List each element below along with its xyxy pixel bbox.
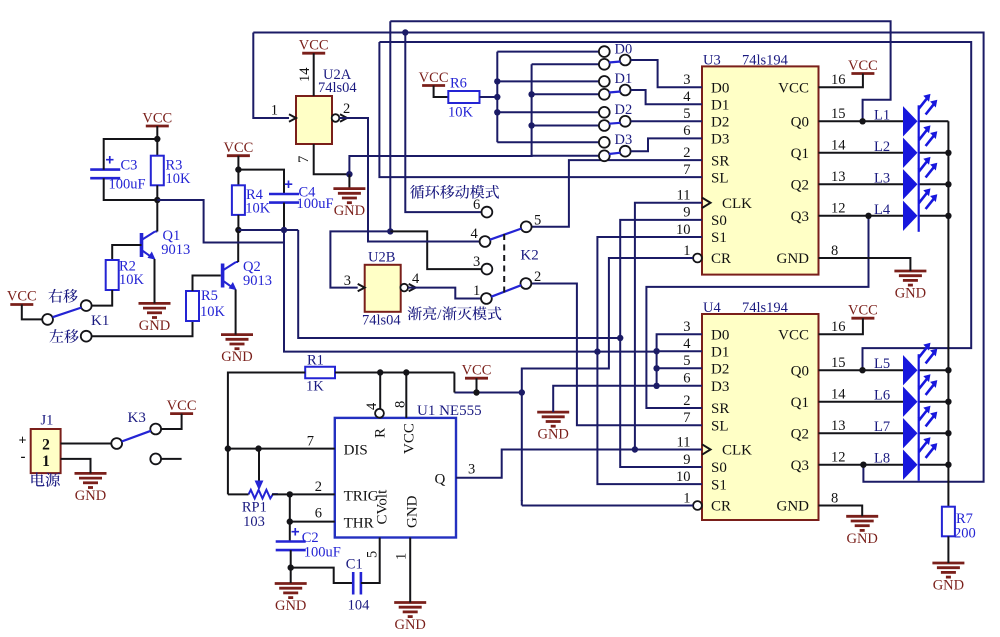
svg-text:CR: CR [711, 499, 731, 515]
node VCC stub junction [473, 389, 479, 395]
node cathode bus junction [945, 399, 951, 405]
svg-text:SL: SL [711, 170, 729, 186]
svg-text:+: + [291, 524, 300, 541]
wire TRIG-THR-C2 vertical [289, 494, 291, 541]
svg-text:GND: GND [777, 499, 810, 515]
wire U4.Q0 feedback top line3 [379, 42, 971, 370]
node C2-C1 junction [288, 564, 294, 570]
svg-text:K1: K1 [91, 313, 109, 329]
svg-text:16: 16 [831, 72, 846, 88]
switch D2 wire from bus B [532, 125, 599, 127]
svg-text:15: 15 [831, 106, 846, 122]
wire stub to ground U2A [348, 174, 350, 188]
svg-text:1: 1 [473, 283, 480, 299]
svg-text:8: 8 [831, 490, 838, 506]
svg-text:Q2: Q2 [791, 178, 809, 194]
svg-text:GND: GND [275, 598, 306, 614]
wire U2A pin14 to VCC [313, 53, 315, 96]
svg-text:104: 104 [348, 598, 371, 614]
node cathode bus junction [945, 181, 951, 187]
U2B pin4 output arrow [409, 284, 416, 291]
svg-text:3: 3 [683, 319, 690, 335]
wire L2 cathode to bus [919, 152, 949, 154]
svg-text:9013: 9013 [243, 273, 272, 289]
svg-text:VCC: VCC [778, 80, 809, 96]
svg-text:R: R [373, 428, 389, 438]
switch D3 blade [609, 153, 621, 154]
capacitor C2 [276, 540, 306, 543]
node D-bus junctions [653, 348, 659, 354]
wire U3/U4 output row L3 [819, 183, 904, 185]
wire U3/U4 output row L5 [819, 369, 904, 371]
svg-text:100uF: 100uF [109, 177, 146, 193]
svg-text:GND: GND [221, 349, 252, 365]
svg-text:1: 1 [394, 553, 410, 560]
svg-text:10K: 10K [166, 171, 192, 187]
wire U4 D-bus [657, 334, 702, 386]
wire U3.S0 to U4.S0 [620, 220, 702, 467]
svg-text:9013: 9013 [161, 242, 190, 258]
switch D2 upper contact [599, 107, 610, 118]
switch K3 blade [122, 431, 151, 442]
svg-text:D0: D0 [615, 41, 633, 57]
svg-text:1: 1 [683, 490, 690, 506]
svg-text:74ls194: 74ls194 [742, 300, 789, 316]
VCC symbol at K1 [10, 303, 33, 306]
wire L5 cathode to bus [919, 369, 949, 371]
switch K2 contact 6 [482, 207, 493, 218]
svg-text:D1: D1 [711, 344, 729, 360]
svg-text:100uF: 100uF [297, 196, 334, 212]
wire DIS pin7 [228, 448, 335, 450]
svg-text:1: 1 [42, 453, 50, 470]
svg-text:L6: L6 [874, 388, 890, 404]
switch D0 lower contact [599, 59, 610, 70]
wire VCC stub R4 [237, 156, 239, 186]
svg-text:1: 1 [271, 103, 278, 119]
svg-text:L3: L3 [874, 170, 890, 186]
wire U2B input [330, 231, 390, 287]
svg-text:11: 11 [677, 434, 691, 450]
svg-text:SR: SR [711, 153, 729, 169]
svg-text:D1: D1 [711, 98, 729, 114]
wire U3.CLK to U4.CLK [635, 203, 702, 450]
resistor R7 [942, 507, 955, 537]
svg-text:L5: L5 [874, 356, 890, 372]
wire C2 bottom [290, 550, 292, 583]
svg-text:3: 3 [473, 254, 480, 270]
connector J1 body [31, 429, 61, 473]
LED L2 [903, 138, 918, 168]
svg-text:D2: D2 [615, 102, 633, 118]
wire collector node bus [238, 229, 298, 231]
U4 CLK edge mark [702, 444, 711, 454]
svg-text:74ls194: 74ls194 [742, 53, 789, 69]
svg-text:VCC: VCC [778, 327, 809, 343]
wire rail corner to VCC node [453, 373, 455, 393]
ground below J1 [75, 472, 107, 475]
wire U3.Q0 feedback loop top line [390, 21, 890, 121]
timer U1 NE555 body [335, 418, 456, 538]
ground at U4 pin8 [846, 515, 878, 518]
wire D2 to U3 pin [631, 120, 702, 122]
svg-text:2: 2 [683, 145, 690, 161]
svg-text:-: - [21, 449, 26, 465]
VCC symbol at K3 [170, 412, 193, 415]
switch K2 contact 4 [480, 236, 491, 247]
svg-text:D3: D3 [615, 132, 633, 148]
wire U3 VCC pin16 [819, 74, 863, 88]
svg-text:VCC: VCC [419, 70, 449, 86]
wire L4 cathode to bus [919, 215, 949, 217]
U2B pin3 input arrow [358, 284, 365, 291]
node R3/C3/Q1 collector [154, 197, 160, 203]
node CLK junction [632, 446, 638, 452]
inverter U2A 74ls04 body [296, 96, 332, 144]
wire VCC stub to R6 [434, 86, 449, 98]
node Q0 feedback junction [859, 118, 865, 124]
svg-text:4: 4 [471, 226, 479, 242]
node cathode bus junction [945, 367, 951, 373]
label right-shift [49, 289, 78, 303]
switch K1 blade [53, 308, 82, 318]
svg-text:Q0: Q0 [791, 115, 809, 131]
svg-text:R6: R6 [450, 76, 467, 92]
svg-text:2: 2 [534, 269, 541, 285]
wire CR net U3 [522, 258, 693, 501]
U2A pin1 input arrow [289, 114, 296, 121]
svg-text:D3: D3 [711, 379, 729, 395]
wire Q1 emitter to ground [154, 259, 156, 303]
wire S1 net vertical [284, 230, 657, 352]
wire K1 lower to R5 [92, 321, 193, 336]
wire U4 D3 row to ground [553, 386, 702, 412]
svg-text:7: 7 [683, 162, 690, 178]
svg-text:2: 2 [343, 101, 350, 117]
wire junction to K2 contact 3 [390, 231, 481, 269]
svg-text:R5: R5 [201, 288, 218, 304]
svg-text:12: 12 [831, 450, 846, 466]
svg-text:Q3: Q3 [791, 209, 809, 225]
switch D1 wire from bus B [532, 93, 599, 95]
wire R4 top node to C4 [238, 170, 284, 194]
wire C1 to pin5 CVolt [361, 538, 380, 584]
wire U3/U4 output row L7 [819, 432, 904, 434]
svg-text:J1: J1 [41, 413, 54, 429]
transistor Q1 [140, 233, 144, 257]
svg-text:VCC: VCC [848, 303, 878, 319]
switch D1 blade [609, 92, 621, 93]
svg-text:U1 NE555: U1 NE555 [417, 403, 482, 419]
wire VCC stub NE555 [476, 378, 478, 392]
svg-text:S0: S0 [711, 460, 727, 476]
svg-text:L1: L1 [874, 107, 890, 123]
wire D3 to U3 pin [631, 138, 702, 151]
svg-text:C1: C1 [346, 557, 363, 573]
svg-text:12: 12 [831, 201, 846, 217]
svg-text:103: 103 [243, 514, 265, 530]
switch D2 lower contact [599, 120, 610, 131]
node Q3 feedback junction [865, 213, 871, 219]
ground at U4 SL [537, 411, 569, 414]
potentiometer RP1 element [249, 490, 278, 499]
svg-text:D0: D0 [711, 327, 729, 343]
VCC symbol at R3 [146, 125, 169, 128]
bus B junctions [528, 91, 534, 97]
svg-text:GND: GND [846, 531, 877, 547]
LED L4 [903, 201, 918, 231]
switch K3 left contact [111, 438, 122, 449]
node U2B input junction [387, 228, 393, 234]
node DIS junction left [225, 445, 231, 451]
svg-text:C3: C3 [121, 158, 138, 174]
svg-text:9: 9 [683, 452, 690, 468]
wire to mode contact 6 [405, 33, 481, 213]
svg-text:4: 4 [683, 336, 691, 352]
node pin8 junction [403, 369, 409, 375]
svg-text:D1: D1 [615, 71, 633, 87]
svg-text:S0: S0 [711, 213, 727, 229]
switch D0 wire from bus A [497, 51, 599, 53]
svg-text:100uF: 100uF [304, 545, 341, 561]
switch D0 blade [609, 62, 621, 63]
wire U4.Q0 to U3.SL [379, 42, 702, 177]
svg-text:L4: L4 [874, 202, 891, 218]
wire R5 top to Q2 base [193, 276, 221, 292]
resistor R3 [151, 156, 164, 186]
node RP1 wiper junction [255, 445, 261, 451]
svg-text:7: 7 [296, 156, 312, 163]
IC U4 74ls194 body [702, 314, 819, 520]
wire K2 contact 5 to U3.SR [532, 160, 702, 227]
wire R1 left [228, 373, 305, 495]
wire NE555 Q to CLK net [456, 450, 702, 478]
svg-text:CLK: CLK [722, 443, 752, 459]
svg-text:VCC: VCC [299, 38, 329, 54]
svg-text:GND: GND [933, 578, 964, 594]
switch D2 output contact [620, 116, 631, 127]
wire R6 to pull-up bus [480, 96, 498, 98]
switch K2 contact 5 [521, 221, 532, 232]
ground at NE555 pin1 [394, 601, 426, 604]
wire U2B output to K2 contact 1 [408, 288, 481, 299]
switch D3 wire from bus B [532, 155, 599, 157]
svg-text:GND: GND [394, 617, 425, 632]
svg-text:10K: 10K [119, 272, 145, 288]
wire S0 net from collector node [298, 230, 620, 338]
svg-text:4: 4 [683, 89, 691, 105]
capacitor C3 [90, 168, 120, 171]
wire D1 to U3 pin [631, 90, 702, 104]
svg-text:7: 7 [683, 410, 690, 426]
switch D0 upper contact [599, 46, 610, 57]
wire Q1 collector [156, 200, 158, 232]
switch D1 lower contact [599, 89, 610, 100]
wire U4 D1 row [657, 350, 702, 352]
wire VCC to R3/C3 node [156, 126, 158, 156]
switch D0 wire from bus B [532, 63, 599, 65]
node cathode bus junction [945, 430, 951, 436]
LED L5 [903, 355, 918, 385]
wire RP1 left lead [228, 493, 249, 495]
wire L6 cathode to bus [919, 401, 949, 403]
svg-text:8: 8 [831, 243, 838, 259]
svg-text:14: 14 [831, 138, 846, 154]
svg-text:+: + [105, 152, 114, 169]
wire D0 to U3 pin [631, 60, 702, 87]
svg-text:U2B: U2B [368, 250, 395, 266]
svg-text:THR: THR [344, 515, 374, 531]
VCC symbol at NE555 [465, 377, 488, 380]
switch K3 right contact [150, 424, 161, 435]
switch D1 upper contact [599, 76, 610, 87]
svg-text:74ls04: 74ls04 [318, 80, 357, 96]
U3 CLK edge mark [702, 198, 711, 208]
J1 label 电源 [31, 472, 60, 486]
svg-text:VCC: VCC [223, 140, 253, 156]
ground below R7 [932, 562, 964, 565]
svg-text:1K: 1K [306, 379, 324, 395]
svg-text:S1: S1 [711, 477, 727, 493]
node U4.Q3 feedback junction [860, 462, 866, 468]
ground below Q1 [139, 302, 171, 305]
IC U3 74ls194 body [702, 66, 819, 274]
ground below Q2 [221, 333, 253, 336]
wire Q2 collector [237, 230, 239, 262]
U2B pin4 output bubble [400, 284, 408, 292]
svg-text:VCC: VCC [167, 398, 197, 414]
switch K2 blade 1-2 [491, 285, 521, 297]
VCC symbol at R4 [227, 154, 250, 157]
svg-text:L8: L8 [874, 451, 890, 467]
svg-text:11: 11 [677, 188, 691, 204]
U1 pin4 reset bubble [375, 409, 384, 418]
node U2A pin7 ground junction [346, 171, 352, 177]
svg-text:10K: 10K [245, 201, 270, 217]
node R4 top VCC/C4 [235, 166, 241, 172]
svg-text:+: + [19, 434, 27, 449]
svg-text:U3: U3 [703, 53, 721, 69]
wire L3 cathode to bus [919, 183, 949, 185]
switch D3 wire from bus A [497, 141, 599, 143]
switch K3 lower contact [150, 454, 161, 465]
svg-text:2: 2 [42, 437, 50, 454]
inverter U2B 74ls04 body [365, 265, 401, 312]
svg-text:VCC: VCC [402, 423, 418, 454]
resistor R1 [305, 367, 335, 379]
wire U4 D2 row [657, 367, 702, 369]
wire Q1 base to R2 [112, 245, 141, 260]
wire K3 spare stub [161, 458, 182, 460]
svg-text:3: 3 [683, 72, 690, 88]
resistor R4 [232, 185, 245, 215]
VCC symbol at U2A pin14 [302, 52, 325, 55]
switch D3 upper contact [599, 137, 610, 148]
svg-text:2: 2 [315, 479, 322, 495]
svg-text:U4: U4 [703, 300, 721, 316]
node cathode bus junction [945, 150, 951, 156]
label cycle shift mode [410, 185, 499, 199]
capacitor C1 [352, 572, 355, 595]
U4 CR bubble pin 1 [693, 501, 702, 510]
VCC symbol at U4 pin16 [851, 317, 874, 320]
svg-text:GND: GND [777, 251, 810, 267]
switch D3 output contact [620, 146, 631, 157]
switch K1 common contact [42, 314, 53, 325]
capacitor C4 [269, 193, 299, 196]
switch D2 wire from bus A [497, 111, 599, 113]
wire U3/U4 output row L6 [819, 401, 904, 403]
node VCC-CR junction [519, 389, 525, 395]
wire R1 right rail [335, 372, 454, 374]
wire U2A output to K2 contact 4 [339, 118, 479, 242]
wire J1 pin2 to K3 [61, 443, 112, 445]
wire Q2 emitter to ground [235, 290, 237, 335]
wire U4 VCC pin16 [819, 318, 863, 334]
wire U3/U4 output row L1 [819, 120, 904, 122]
wire L8 cathode to bus [919, 464, 949, 466]
svg-text:L7: L7 [874, 419, 890, 435]
node top line2 junction [402, 29, 408, 35]
switch D0 output contact [620, 55, 631, 66]
wire THR pin6 [290, 521, 335, 523]
wire VCC rail to CR net [454, 392, 521, 394]
node TRIG junction [287, 491, 293, 497]
svg-text:CR: CR [711, 251, 731, 267]
LED L7 [903, 418, 918, 448]
svg-text:Q1: Q1 [791, 146, 809, 162]
svg-text:CVolt: CVolt [375, 489, 391, 525]
node pin4 junction [377, 369, 383, 375]
svg-text:DIS: DIS [344, 442, 368, 458]
LED L3 [903, 169, 918, 199]
switch K1 upper contact [81, 300, 92, 311]
svg-text:VCC: VCC [142, 111, 172, 127]
svg-text:6: 6 [473, 197, 480, 213]
svg-text:2: 2 [683, 393, 690, 409]
ground at U3 pin8 [894, 270, 926, 273]
svg-text:D2: D2 [711, 115, 729, 131]
svg-text:7: 7 [307, 433, 314, 449]
wire C2 node to C1 [291, 568, 354, 583]
node VCC/R3 [154, 136, 160, 142]
svg-text:3: 3 [468, 462, 475, 478]
potentiometer RP1 wiper arrow [258, 449, 260, 481]
label left-shift [49, 329, 78, 343]
wire U3 GND pin8 [819, 258, 911, 271]
wire U3.S1 to U4.S1 [597, 237, 702, 484]
wire Q1 collector node to branch [157, 200, 284, 243]
svg-text:K2: K2 [520, 248, 538, 264]
svg-text:Q1: Q1 [791, 395, 809, 411]
svg-text:1: 1 [683, 243, 690, 259]
svg-text:VCC: VCC [848, 58, 878, 74]
svg-text:200: 200 [954, 526, 976, 542]
LED cathode bus [947, 121, 949, 506]
svg-text:13: 13 [831, 169, 846, 185]
ground at U2A pin7 [333, 187, 365, 190]
switch K2 contact 2 [521, 278, 532, 289]
svg-text:R1: R1 [307, 353, 324, 369]
wire R4 bottom to node [237, 215, 239, 230]
resistor R2 [106, 260, 119, 290]
node S0 junction [617, 335, 623, 341]
VCC symbol at R6 [422, 84, 445, 87]
wire U3/U4 output row L4 [819, 215, 904, 217]
svg-text:14: 14 [297, 67, 313, 82]
svg-text:TRIG: TRIG [344, 488, 379, 504]
svg-text:74ls04: 74ls04 [362, 313, 401, 329]
